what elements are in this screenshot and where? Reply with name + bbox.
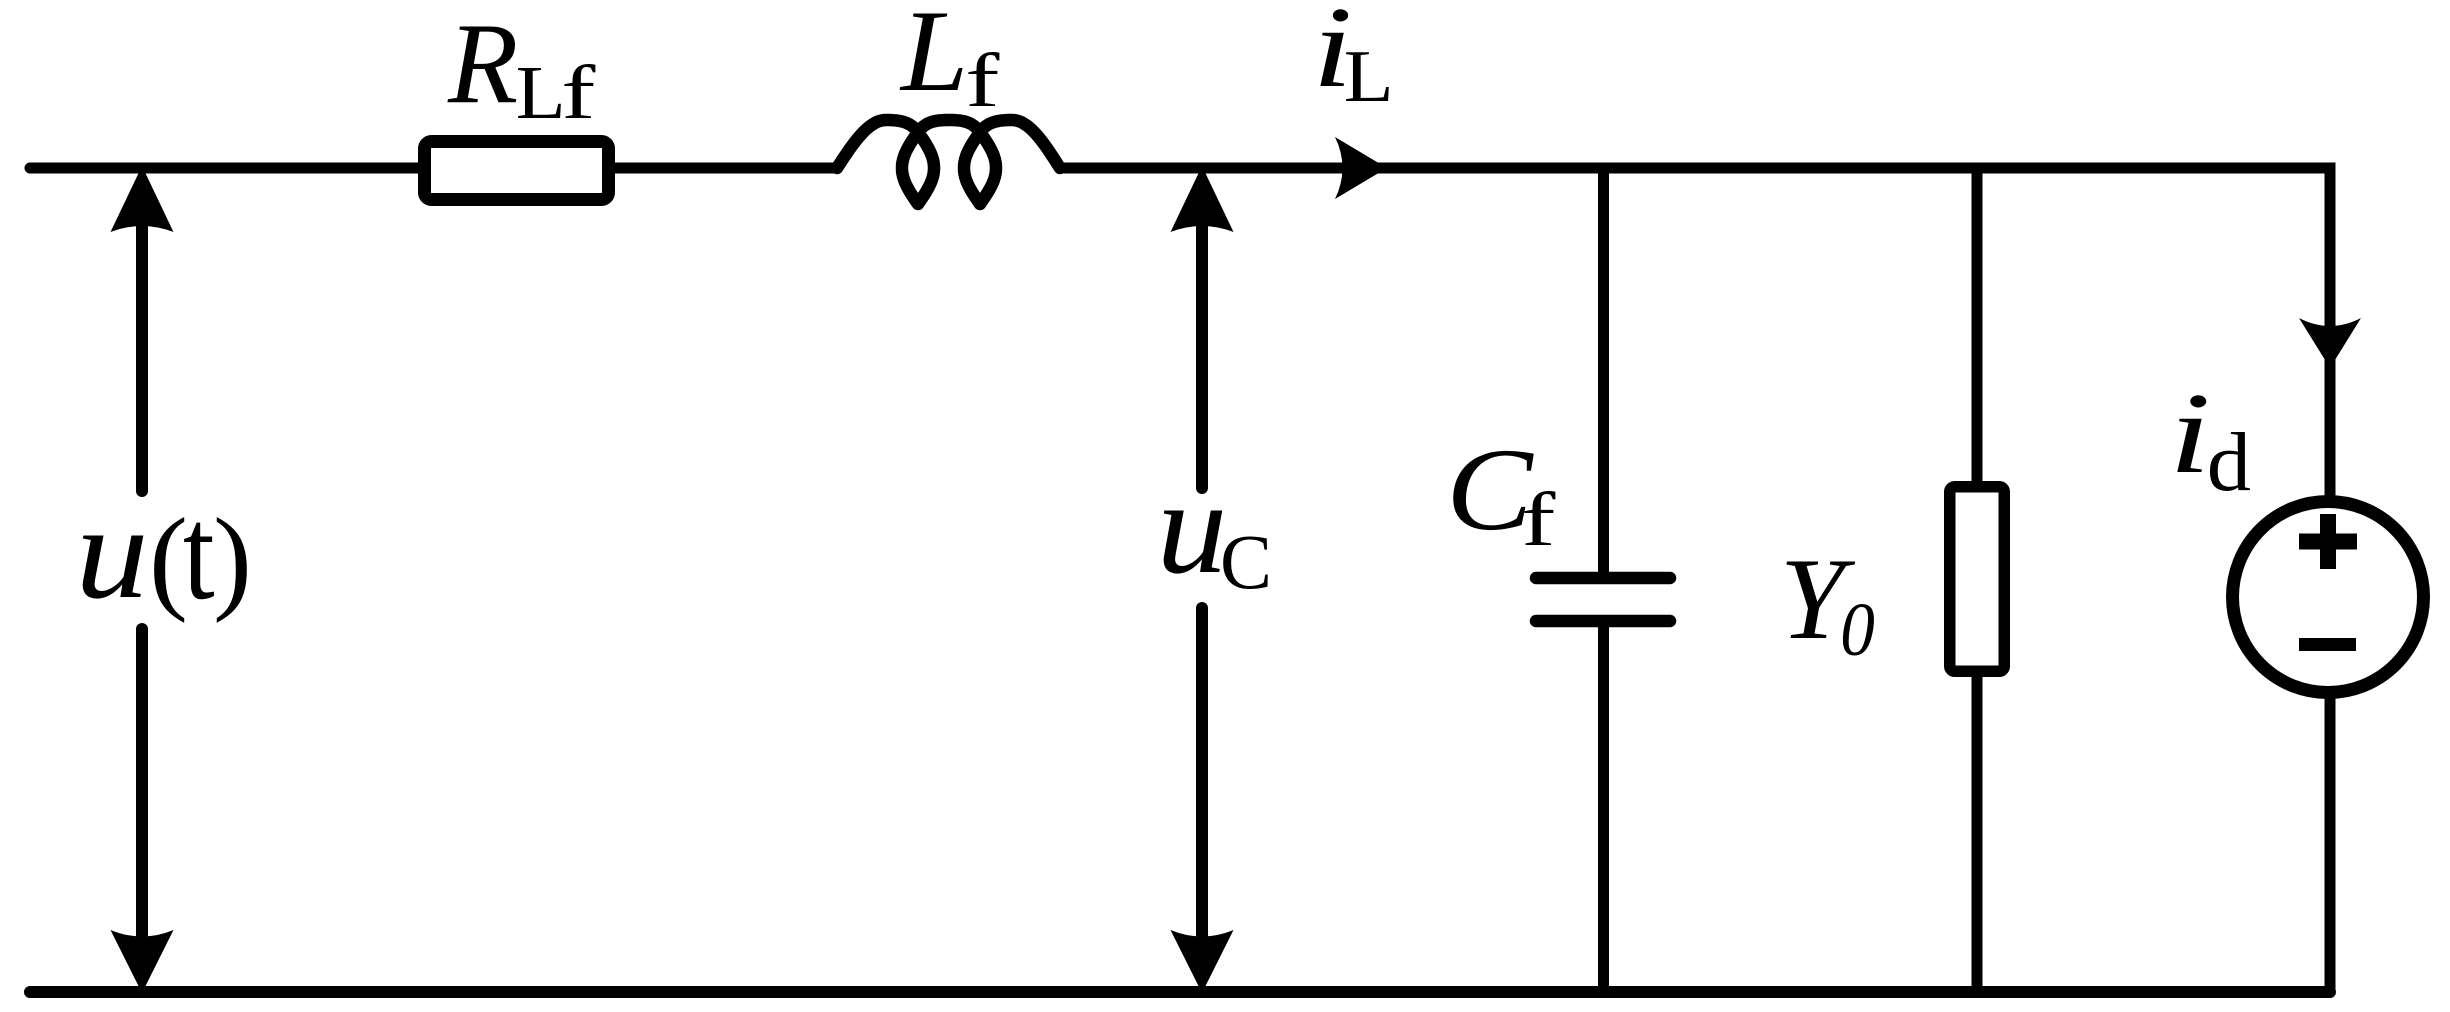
wire capacitor branch lower bbox=[1598, 627, 1609, 992]
minus sign inside current source bbox=[2299, 638, 2356, 651]
resistor R_Lf box bbox=[425, 142, 609, 200]
plus sign inside current source bbox=[2299, 514, 2357, 569]
svg-text:f: f bbox=[1521, 478, 1556, 562]
svg-text:L: L bbox=[899, 0, 968, 116]
i_L current arrowhead on top wire bbox=[1335, 137, 1387, 199]
i_d current arrowhead on right wire bbox=[2299, 318, 2361, 368]
wire from inductor to top-right corner bbox=[1060, 163, 2330, 174]
svg-text:C: C bbox=[1220, 518, 1272, 605]
u_C arrow shaft upper bbox=[1196, 192, 1208, 488]
u(t) arrowhead up bbox=[111, 166, 174, 232]
svg-text:0: 0 bbox=[1840, 587, 1875, 672]
u(t) arrowhead down bbox=[111, 930, 174, 993]
svg-text:f: f bbox=[965, 39, 1000, 123]
svg-text:u: u bbox=[1157, 452, 1228, 601]
svg-text:(: ( bbox=[149, 495, 188, 624]
u(t) arrow shaft lower bbox=[136, 629, 148, 962]
svg-text:L: L bbox=[1344, 36, 1394, 118]
wire right vertical lower (current source to bottom) bbox=[2325, 692, 2336, 992]
svg-text:f: f bbox=[561, 51, 596, 135]
wire right vertical upper (to current source) bbox=[2325, 163, 2336, 503]
svg-text:u: u bbox=[75, 479, 148, 627]
current source i_d circle bbox=[2233, 502, 2424, 693]
svg-text:d: d bbox=[2207, 415, 2251, 508]
svg-text:i: i bbox=[2169, 369, 2211, 497]
u(t) arrow shaft upper bbox=[136, 192, 148, 491]
wire Y0 branch upper bbox=[1972, 168, 1983, 486]
wire bottom rail bbox=[30, 986, 2330, 998]
u_C arrowhead down bbox=[1171, 930, 1234, 993]
wire top-left segment bbox=[30, 163, 424, 174]
u_C arrow shaft lower bbox=[1196, 608, 1208, 962]
wire between resistor and inductor bbox=[609, 163, 838, 174]
inductor L_f coil bbox=[837, 120, 1060, 204]
svg-text:R: R bbox=[447, 0, 518, 127]
svg-text:L: L bbox=[516, 52, 566, 136]
u_C arrowhead up bbox=[1171, 166, 1234, 232]
svg-text:): ) bbox=[213, 495, 252, 624]
wire capacitor branch upper bbox=[1598, 168, 1609, 572]
admittance Y_0 box bbox=[1950, 487, 2005, 672]
svg-text:t: t bbox=[183, 478, 215, 627]
wire Y0 branch lower bbox=[1972, 672, 1983, 992]
capacitor C_f top plate bbox=[1536, 572, 1670, 585]
capacitor C_f bottom plate bbox=[1536, 615, 1670, 628]
